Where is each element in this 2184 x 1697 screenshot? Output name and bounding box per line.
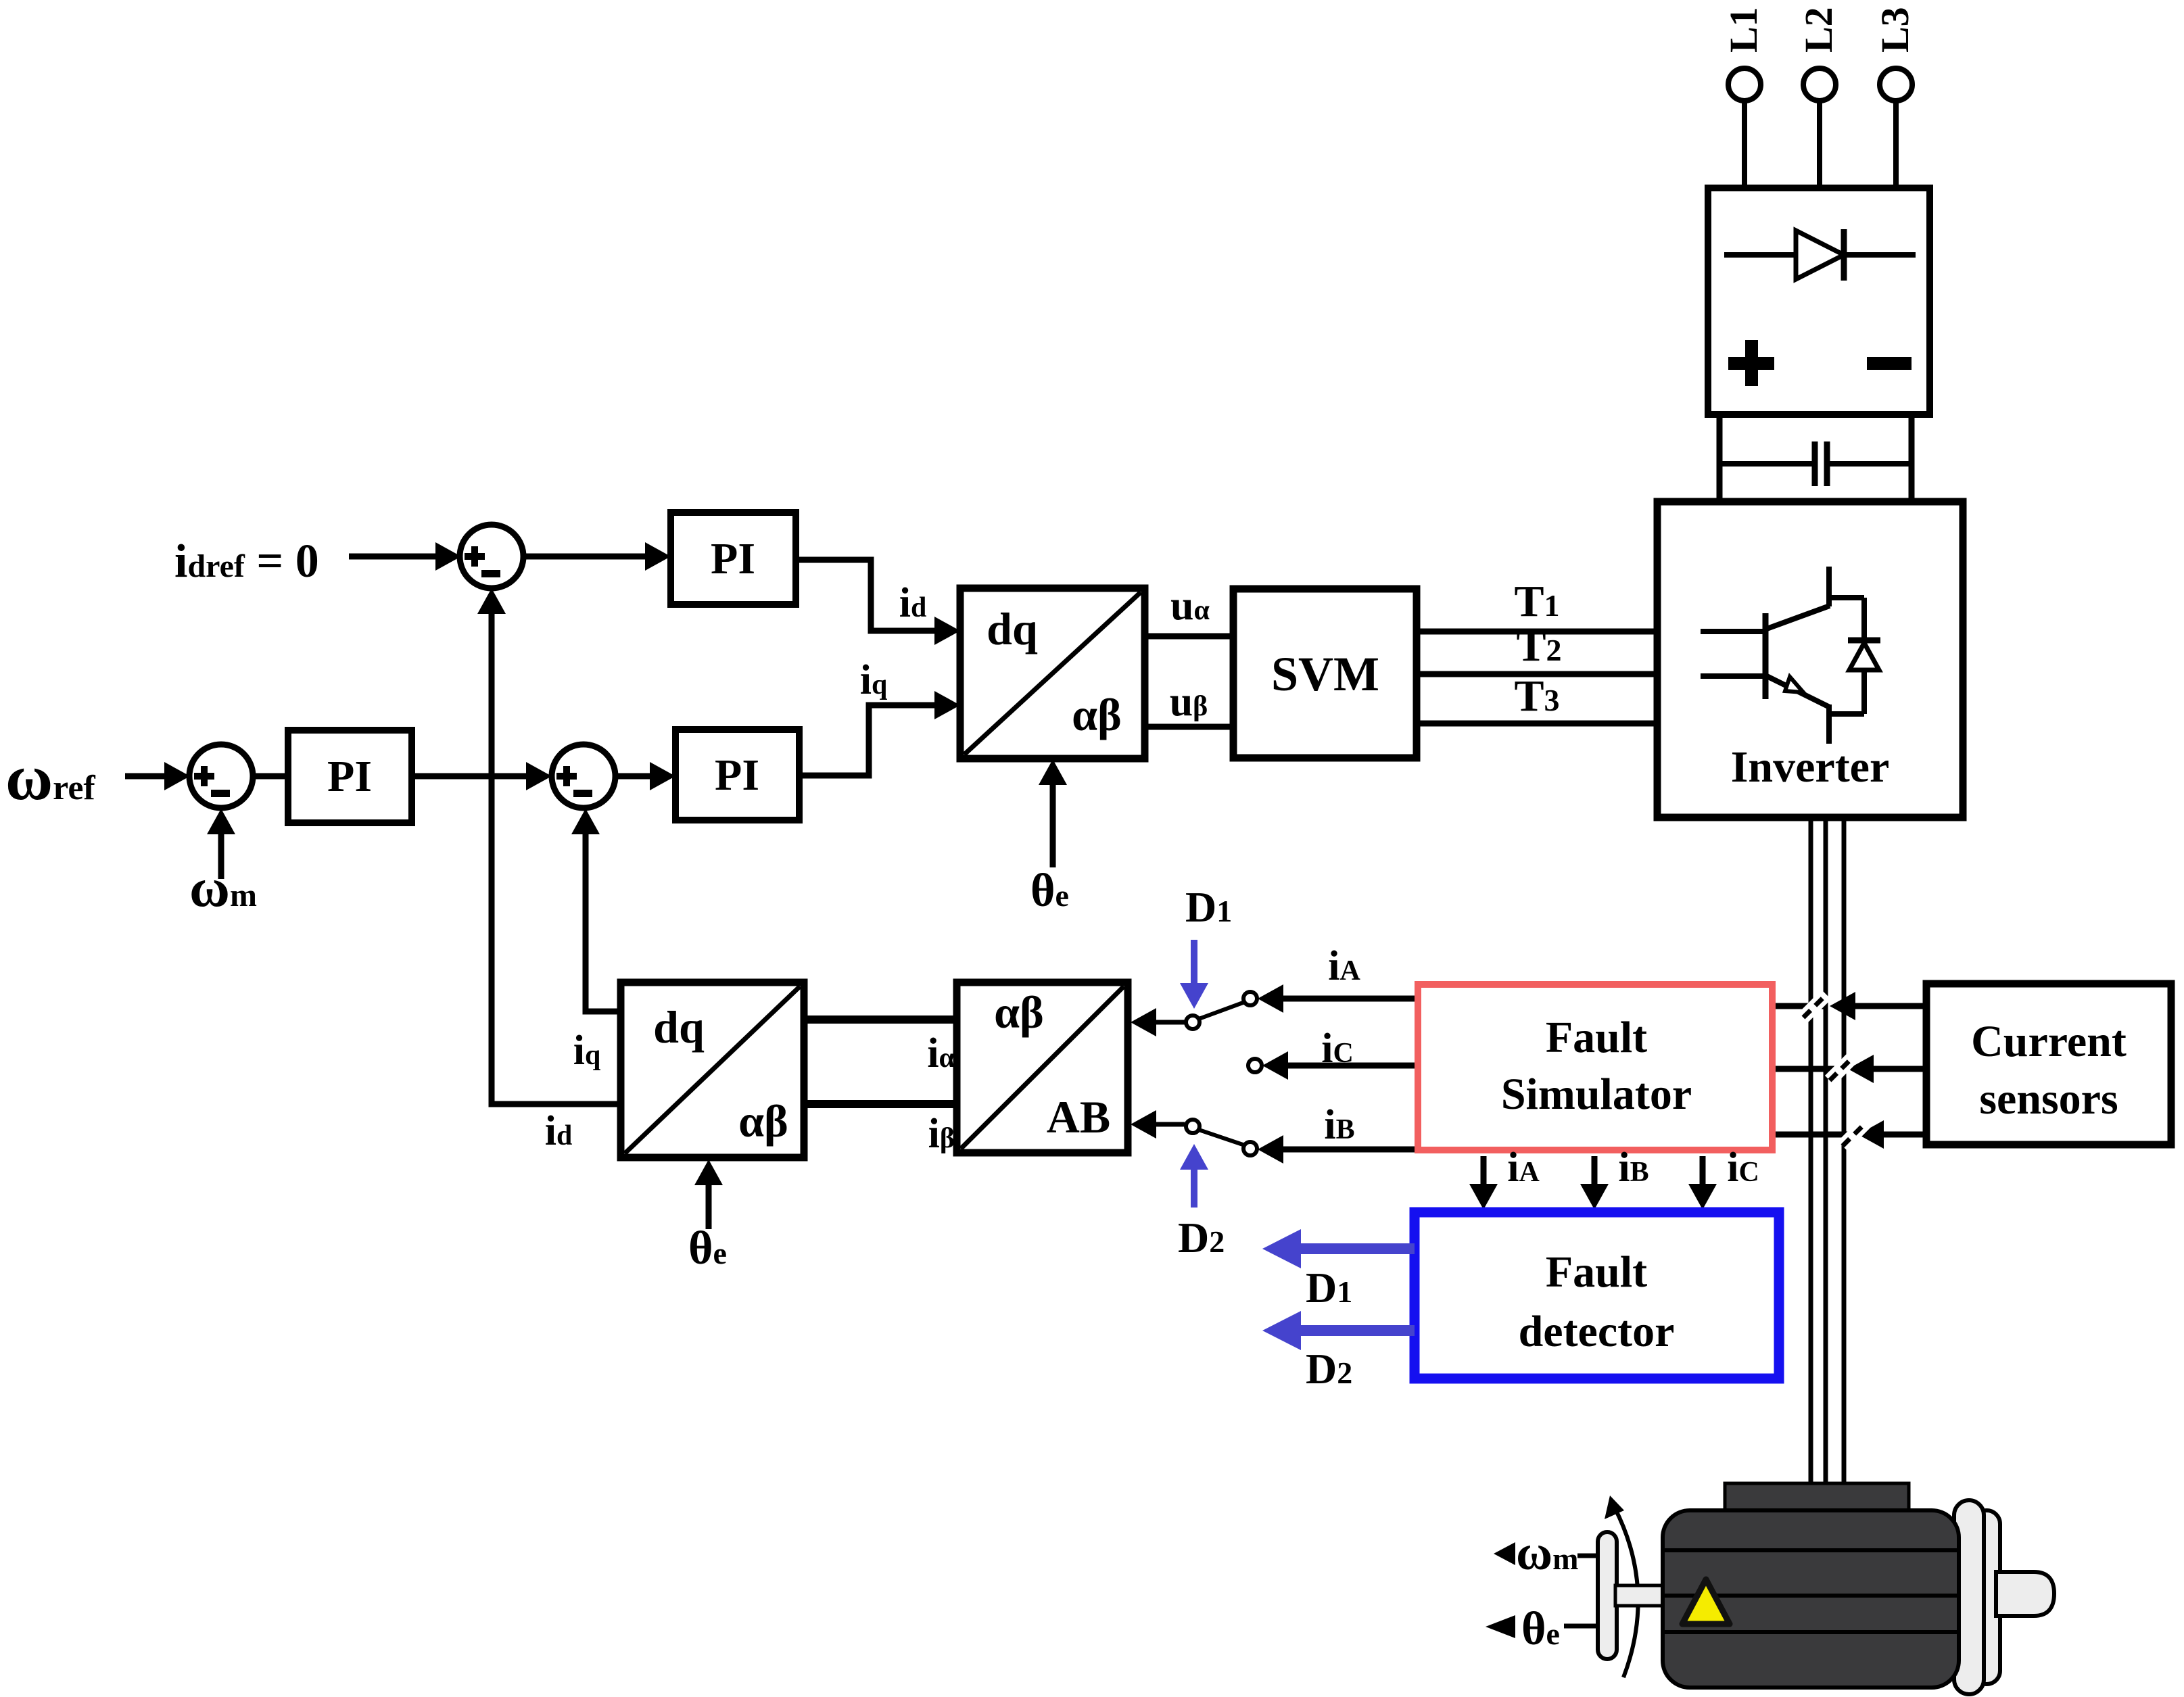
- wire phase B inverter to motor: [1824, 817, 1828, 1485]
- node iC label (switch): [1321, 1026, 1354, 1072]
- wire L3 drop: [1893, 101, 1899, 188]
- sensor clamp mark C: [1843, 1123, 1866, 1146]
- svg-text:dq: dq: [987, 603, 1038, 654]
- wire fault sim tap A: [1776, 1003, 1826, 1009]
- summing junction S1: [460, 525, 523, 588]
- node iB label (switch): [1324, 1102, 1354, 1148]
- transform block ab/AB: [957, 982, 1128, 1153]
- svg-text:PI: PI: [711, 534, 755, 583]
- wire S2 to PI2: [253, 773, 291, 780]
- node T1 label: [1514, 577, 1559, 626]
- fault simulator box: [1418, 984, 1772, 1150]
- summing junction S3: [552, 744, 615, 808]
- terminal L1: [1722, 7, 1765, 101]
- node D2 label (switch): [1178, 1214, 1225, 1262]
- node iC label (detector input): [1727, 1145, 1759, 1191]
- freewheeling diode inside inverter: [1848, 598, 1880, 714]
- wire wm feedback up into S2: [207, 809, 235, 879]
- wire id feedback to S1: [477, 588, 621, 1104]
- wire sensor tap A: [1830, 992, 1924, 1020]
- svg-text:detector: detector: [1519, 1307, 1675, 1356]
- terminal L2: [1797, 7, 1841, 101]
- motor terminal box: [1725, 1483, 1909, 1514]
- wire theta-e sensor output: [1486, 1615, 1599, 1638]
- node wm label: [189, 857, 257, 918]
- svg-text:Fault: Fault: [1546, 1013, 1647, 1062]
- node D2 label (detector output): [1306, 1345, 1352, 1393]
- rectifier box: [1708, 188, 1930, 414]
- node id label: [899, 580, 927, 626]
- sensor clamp mark A: [1803, 995, 1826, 1018]
- svg-text:SVM: SVM: [1271, 647, 1379, 701]
- node iB label (detector input): [1618, 1145, 1648, 1191]
- wire wm sensor output: [1494, 1542, 1599, 1565]
- svg-text:sensors: sensors: [1979, 1074, 2118, 1124]
- switch SW2 (iC channel, open): [1248, 1051, 1415, 1080]
- output arrow D2 (thick blue): [1262, 1311, 1415, 1350]
- node iq feedback label: [573, 1028, 601, 1074]
- node i-beta label: [928, 1111, 955, 1157]
- wire i-alpha between blocks: [804, 1015, 957, 1024]
- motor end bell rear: [1973, 1510, 2000, 1684]
- diode D-rect inside rectifier: [1724, 229, 1916, 281]
- motor end bell front: [1954, 1500, 1984, 1694]
- control arrow D1 (blue): [1180, 940, 1208, 1009]
- svg-text:PI: PI: [715, 750, 759, 800]
- plus terminal mark: [1728, 340, 1774, 386]
- summing junction S2: [189, 744, 253, 808]
- inverter box: [1657, 502, 1963, 817]
- wire L2 drop: [1817, 101, 1822, 188]
- sensor clamp mark B: [1830, 1057, 1853, 1080]
- PI controller PI3: [675, 730, 799, 820]
- wire T2 SVM to inverter: [1417, 671, 1657, 677]
- node T2 label: [1516, 621, 1561, 671]
- wire fault sim tap C: [1776, 1132, 1858, 1138]
- PI controller PI2: [288, 730, 412, 823]
- wire L1 drop: [1742, 101, 1747, 188]
- wire phase C inverter to motor: [1842, 817, 1847, 1485]
- wire T1 SVM to inverter: [1417, 629, 1657, 635]
- svg-text:AB: AB: [1047, 1091, 1110, 1143]
- wire PI2 to S3: [412, 762, 552, 790]
- wire wref input: [125, 762, 190, 790]
- capacitor C-dc: [1719, 441, 1912, 486]
- svg-text:Current: Current: [1971, 1017, 2127, 1066]
- control arrow D2 (blue): [1180, 1144, 1208, 1208]
- svg-text:Inverter: Inverter: [1731, 742, 1890, 792]
- wire PI1 to dq block (id): [796, 560, 960, 645]
- current sensors box: [1926, 984, 2171, 1145]
- node D1 label (switch): [1185, 883, 1232, 931]
- switch SW1 (iA channel): [1131, 984, 1415, 1036]
- transform block dq/ab (upper): [960, 588, 1145, 759]
- svg-text:dq: dq: [653, 1001, 705, 1053]
- wire fault sim tap B: [1776, 1066, 1842, 1072]
- wire i-beta between blocks: [804, 1100, 957, 1108]
- node u-alpha label: [1170, 583, 1210, 629]
- wire S3 to PI3: [615, 762, 675, 790]
- svg-text:αβ: αβ: [994, 986, 1044, 1038]
- wire dc link left: [1717, 414, 1723, 502]
- wire theta-e into lower dq block: [694, 1160, 723, 1229]
- wire u-alpha dq to SVM: [1145, 634, 1233, 640]
- SVM block: [1233, 589, 1417, 758]
- minus terminal mark: [1867, 357, 1912, 370]
- node iq label: [860, 657, 888, 703]
- motor warning triangle: [1682, 1579, 1730, 1624]
- wire dc link right: [1909, 414, 1915, 502]
- node u-beta label: [1170, 679, 1208, 725]
- wire u-beta dq to SVM: [1145, 724, 1233, 730]
- wire iB fault sim to detector: [1580, 1156, 1609, 1210]
- wire theta-e into upper dq block: [1039, 759, 1067, 867]
- fault detector box: [1415, 1212, 1779, 1379]
- IGBT symbol inside inverter: [1701, 567, 1864, 744]
- svg-text:Fault: Fault: [1546, 1247, 1647, 1297]
- node theta-e label (upper): [1030, 865, 1069, 917]
- svg-text:PI: PI: [327, 752, 372, 801]
- PI controller PI1: [671, 512, 796, 604]
- wire T3 SVM to inverter: [1417, 721, 1657, 727]
- output arrow D1 (thick blue): [1262, 1229, 1415, 1268]
- motor encoder disc: [1598, 1532, 1617, 1659]
- motor left shaft: [1615, 1585, 1664, 1606]
- switch SW3 (iB channel): [1131, 1110, 1415, 1164]
- node theta-e label (lower): [688, 1222, 727, 1274]
- svg-text:Simulator: Simulator: [1501, 1070, 1692, 1119]
- terminal L3: [1873, 7, 1917, 101]
- node i-alpha label: [927, 1030, 955, 1076]
- wire sensor tap B: [1848, 1055, 1924, 1083]
- node iA label (switch): [1328, 943, 1360, 989]
- node idref label: [174, 535, 319, 588]
- svg-text:αβ: αβ: [1072, 689, 1122, 740]
- transform block dq/ab (lower): [621, 982, 804, 1157]
- motor right shaft: [1996, 1572, 2054, 1616]
- wire iC fault sim to detector: [1688, 1156, 1717, 1210]
- node iA label (detector input): [1507, 1145, 1540, 1191]
- wire phase A inverter to motor: [1809, 817, 1813, 1485]
- svg-text:L1: L1: [1722, 7, 1765, 53]
- motor body: [1663, 1510, 1959, 1688]
- node wref label: [5, 741, 95, 813]
- node theta-e label (motor): [1521, 1603, 1560, 1655]
- wire iq feedback to S3: [571, 809, 621, 1011]
- motor rotation arc: [1605, 1496, 1638, 1677]
- svg-text:αβ: αβ: [738, 1095, 788, 1147]
- node id feedback label: [545, 1108, 573, 1154]
- node D1 label (detector output): [1306, 1264, 1352, 1312]
- node wm label (motor): [1516, 1525, 1578, 1581]
- wire iA fault sim to detector: [1469, 1156, 1498, 1210]
- wire sensor tap C: [1858, 1120, 1924, 1149]
- wire idref input: [349, 542, 461, 571]
- wire PI3 to dq block (iq): [799, 691, 960, 775]
- svg-text:L3: L3: [1873, 7, 1917, 53]
- wire S1 to PI1: [523, 542, 671, 571]
- node T3 label: [1514, 671, 1559, 721]
- svg-text:L2: L2: [1797, 7, 1841, 53]
